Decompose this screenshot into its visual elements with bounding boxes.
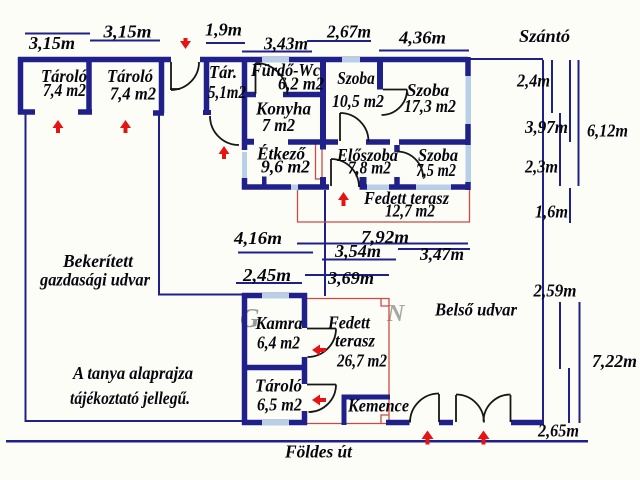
svg-text:3,15m: 3,15m <box>102 22 151 42</box>
svg-text:Tároló: Tároló <box>255 376 302 396</box>
svg-text:gazdasági udvar: gazdasági udvar <box>39 270 151 290</box>
svg-text:Földes út: Földes út <box>284 442 353 462</box>
svg-text:10,5 m2: 10,5 m2 <box>332 91 384 111</box>
svg-text:7 m2: 7 m2 <box>262 115 295 135</box>
svg-text:26,7 m2: 26,7 m2 <box>336 351 387 371</box>
svg-text:9,6 m2: 9,6 m2 <box>261 157 310 177</box>
svg-text:1,6m: 1,6m <box>535 202 568 222</box>
svg-text:7,4 m2: 7,4 m2 <box>110 84 156 104</box>
svg-text:2,67m: 2,67m <box>326 22 371 42</box>
svg-text:3,47m: 3,47m <box>419 244 464 264</box>
svg-text:Belső udvar: Belső udvar <box>434 300 518 320</box>
svg-text:tájékoztató jellegű.: tájékoztató jellegű. <box>70 388 190 408</box>
svg-text:7,5 m2: 7,5 m2 <box>416 160 456 180</box>
svg-text:2,59m: 2,59m <box>533 281 577 301</box>
svg-text:6,12m: 6,12m <box>587 121 628 141</box>
svg-text:3,15m: 3,15m <box>28 33 75 53</box>
svg-text:Kamra: Kamra <box>255 313 303 333</box>
svg-text:3,69m: 3,69m <box>327 268 374 288</box>
svg-text:3,54m: 3,54m <box>334 241 381 261</box>
svg-text:Szántó: Szántó <box>519 26 570 46</box>
svg-text:2,65m: 2,65m <box>537 421 579 441</box>
svg-text:2,45m: 2,45m <box>242 265 291 285</box>
svg-text:Tár.: Tár. <box>209 62 237 82</box>
svg-text:7,4 m2: 7,4 m2 <box>43 80 86 100</box>
svg-text:2,3m: 2,3m <box>524 157 558 177</box>
svg-text:4,36m: 4,36m <box>398 28 446 48</box>
svg-text:6,4 m2: 6,4 m2 <box>257 333 300 353</box>
svg-text:1,9m: 1,9m <box>205 20 242 40</box>
svg-text:7,22m: 7,22m <box>592 351 637 371</box>
svg-text:4,16m: 4,16m <box>233 228 282 248</box>
svg-text:5,1m2: 5,1m2 <box>208 82 246 102</box>
svg-text:7,8 m2: 7,8 m2 <box>348 158 391 178</box>
svg-text:6,5 m2: 6,5 m2 <box>257 395 302 415</box>
svg-text:Kemence: Kemence <box>347 396 409 416</box>
svg-text:Bekerített: Bekerített <box>62 251 134 271</box>
svg-text:3,97m: 3,97m <box>524 117 568 137</box>
svg-text:Szoba: Szoba <box>337 68 375 88</box>
svg-text:12,7 m2: 12,7 m2 <box>385 201 435 221</box>
svg-text:6,2 m2: 6,2 m2 <box>278 74 324 94</box>
svg-text:2,4m: 2,4m <box>516 71 550 91</box>
svg-text:Fedett: Fedett <box>327 313 371 333</box>
svg-text:3,43m: 3,43m <box>263 34 308 54</box>
svg-text:A tanya alaprajza: A tanya alaprajza <box>72 363 193 383</box>
svg-text:terasz: terasz <box>335 331 375 351</box>
svg-text:17,3 m2: 17,3 m2 <box>404 96 456 116</box>
